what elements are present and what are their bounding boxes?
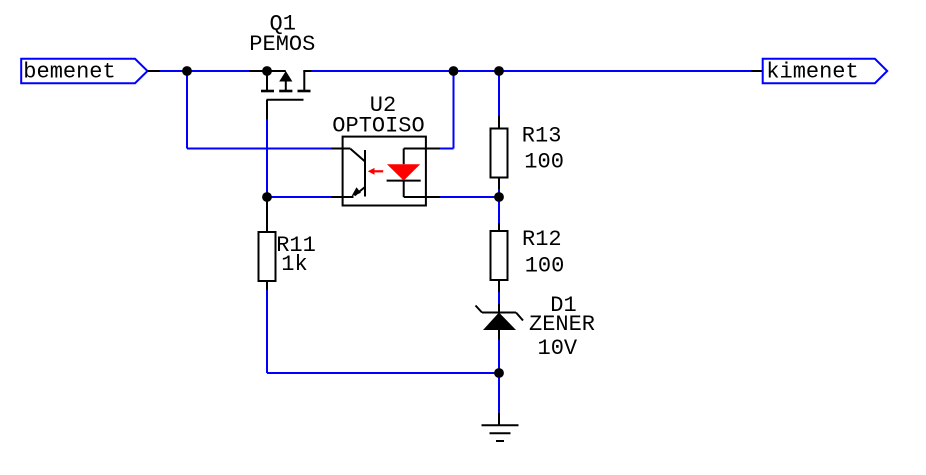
- net flag kimenet: [763, 59, 888, 85]
- junction node E: [262, 192, 272, 202]
- net flag bemenet: [21, 59, 147, 85]
- wire: vertical from node A down to U2 row: [186, 71, 188, 149]
- svg-text:PEMOS: PEMOS: [249, 32, 315, 57]
- resistor R11: [259, 197, 276, 290]
- svg-text:OPTOISO: OPTOISO: [332, 114, 424, 139]
- wire: vertical below R11: [266, 290, 268, 373]
- svg-text:ZENER: ZENER: [529, 312, 595, 337]
- wire: kimenet pin stub: [751, 70, 763, 72]
- svg-text:10V: 10V: [538, 336, 578, 361]
- wire: top rail right segment: [311, 70, 751, 72]
- junction node D (R13 top): [494, 66, 504, 76]
- svg-text:100: 100: [525, 253, 565, 278]
- diode D1 zener: [476, 304, 524, 340]
- wire: node F to R12: [498, 197, 500, 223]
- wire: bottom horizontal to node G: [267, 372, 499, 374]
- wire: gate vertical (blue part): [266, 119, 268, 197]
- svg-text:bemenet: bemenet: [23, 60, 115, 85]
- wire: U2 right-bottom pin to node F: [440, 196, 499, 198]
- resistor R12: [491, 223, 508, 292]
- wire: node G to ground: [498, 373, 500, 413]
- wire: D1 to node G: [498, 340, 500, 374]
- svg-text:R12: R12: [522, 227, 562, 252]
- wire: node E to U2 left-bottom pin: [267, 196, 331, 198]
- svg-text:100: 100: [524, 149, 564, 174]
- U2 phototransistor emitter arrowhead: [352, 187, 361, 196]
- wire: bemenet pin stub: [148, 70, 161, 72]
- svg-text:R13: R13: [522, 124, 562, 149]
- svg-text:kimenet: kimenet: [766, 60, 858, 85]
- svg-text:1k: 1k: [281, 252, 307, 277]
- wire: U2 right-top pin to vertical: [440, 148, 454, 150]
- U2 light arrow (red): [372, 170, 383, 172]
- ground: [482, 413, 519, 441]
- wire: top rail left segment: [160, 70, 250, 72]
- junction node C: [449, 66, 459, 76]
- junction node B (Q1 source): [262, 66, 272, 76]
- junction node G: [494, 368, 504, 378]
- junction node A: [182, 66, 192, 76]
- U2 LED (red): [387, 164, 420, 180]
- wire: vertical at x=452.5 from top rail: [453, 71, 455, 149]
- wire: R13 to node F: [498, 189, 500, 197]
- optocoupler U2: [331, 137, 440, 206]
- wire: R12 to D1: [498, 292, 500, 304]
- junction node F: [494, 192, 504, 202]
- transistor Q1 PEMOS: [250, 71, 312, 119]
- resistor R13: [491, 116, 508, 189]
- wire: top rail to R13: [498, 71, 500, 116]
- wire: horizontal to U2 left-top pin: [187, 148, 331, 150]
